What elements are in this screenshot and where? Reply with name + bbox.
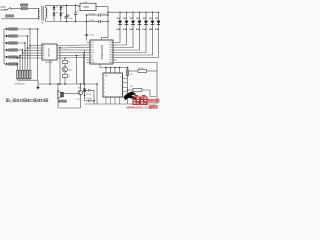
svg-text:V3: V3 (56, 13, 58, 15)
display pin stub (123, 82, 128, 84)
wire speaker bottom loop (58, 95, 80, 108)
svg-text:470µ: 470µ (68, 18, 72, 20)
switch label (6, 15, 8, 17)
wire display pin (105, 68, 107, 74)
svg-text:AT89C2051: AT89C2051 (100, 44, 104, 59)
display pin stub (123, 86, 128, 88)
left indicator diodes LED1-LED6 (3, 29, 5, 64)
speaker feed vertical (76, 56, 78, 85)
wire bridge bottom ground rail (54, 21, 87, 23)
pin stub U1 (40, 45, 43, 47)
svg-text:V1: V1 (56, 7, 58, 9)
regulator IC1 7805 (80, 3, 96, 10)
crystal circuit (84, 84, 86, 101)
svg-text:1B: 1B (43, 53, 45, 55)
LED column D6 (152, 12, 154, 20)
svg-text:C9 30p: C9 30p (86, 98, 92, 100)
svg-text:C2: C2 (77, 11, 79, 13)
svg-text:RST: RST (109, 62, 112, 64)
wire bridge top to regulator (61, 5, 80, 6)
svg-text:R11: R11 (130, 86, 133, 88)
speaker left rail (57, 84, 59, 108)
bottom ground rail (85, 103, 157, 105)
pin stub U2 (87, 52, 91, 54)
LED supply rail top right (108, 11, 159, 13)
wire drop to resistor array (19, 57, 21, 70)
bridge rectifier VD1-VD4 (53, 5, 55, 21)
wire secondary bottom to bridge (46, 18, 54, 21)
wire crystal to bottom rail (93, 90, 95, 104)
svg-text:1B: 1B (43, 58, 45, 60)
wire drop to resistor array (22, 50, 24, 70)
svg-text:4148: 4148 (142, 28, 146, 31)
svg-text:WWW.DZ5C.COM: WWW.DZ5C.COM (127, 106, 152, 110)
diode row VD6 (4, 35, 6, 37)
wire LED column 5 to U2 (117, 35, 147, 53)
pin stub U2 (87, 59, 91, 61)
wires U1 left pins to diode drops (30, 45, 40, 47)
wire LED column 7 to U2 (117, 35, 159, 58)
wire display pin (119, 68, 121, 74)
caption figure 1 (6, 99, 9, 102)
svg-text:4148: 4148 (149, 28, 153, 31)
svg-text:9013: 9013 (78, 87, 82, 89)
wire LED column 3 to U2 (117, 35, 134, 48)
ground symbol (37, 80, 39, 87)
watermark logo swoosh (123, 92, 137, 101)
pin stub U1 (40, 52, 43, 54)
resistor R7 (64, 58, 66, 60)
resistor R11 (127, 89, 129, 91)
svg-text:7: 7 (120, 90, 121, 92)
pin stub U2 (87, 62, 91, 64)
display right rail (127, 68, 129, 105)
capacitor C6 on rail (85, 34, 88, 35)
display pin stub (123, 77, 128, 79)
resistor R8 (64, 72, 66, 74)
wire R10 to right (147, 70, 158, 72)
svg-text:DS1: DS1 (105, 76, 108, 78)
svg-text:1B: 1B (43, 55, 45, 57)
svg-text:1: 1 (10, 99, 12, 103)
wire LED column 2 to U2 (117, 35, 127, 46)
switch K power switch (4, 7, 14, 9)
resistor network R1-R6 (29, 70, 31, 79)
svg-text:C3 220µ: C3 220µ (88, 13, 95, 15)
transformer T1 (38, 9, 39, 19)
resistor R10 (129, 70, 138, 72)
wire secondary top to bridge (46, 5, 54, 7)
display pin stub (123, 95, 128, 97)
svg-text:4148: 4148 (116, 28, 120, 31)
transistor Q3 9013 (78, 90, 83, 95)
wire R11 to rail (142, 90, 156, 97)
rail left of transistor chain (59, 48, 61, 85)
VCC pin stub top (102, 38, 109, 40)
svg-text:V2: V2 (62, 7, 64, 9)
LED column D5 (145, 12, 147, 20)
pin stub U2 (87, 49, 91, 51)
svg-text:50Hz: 50Hz (0, 10, 6, 12)
wire row1 long drop to ground (30, 28, 38, 30)
wire speaker to transistor Q3 (63, 93, 78, 95)
wire LED column 4 to U2 (117, 35, 140, 51)
svg-text:8: 8 (120, 86, 121, 88)
wire display pin (114, 68, 116, 74)
speaker BL (61, 92, 64, 97)
capacitor C2 (75, 5, 77, 13)
LED column D1 (119, 12, 121, 20)
svg-text:1B: 1B (43, 45, 45, 47)
wire drop to resistor array (17, 64, 19, 70)
wire U1 bottom to ground (49, 60, 51, 84)
LED column D2 (126, 12, 128, 20)
bus resistor array common (18, 79, 31, 81)
svg-text:C5 0.1: C5 0.1 (102, 13, 107, 15)
right outer rail (156, 71, 158, 104)
ground right rail (96, 84, 98, 104)
svg-text:220V: 220V (0, 7, 6, 9)
svg-text:9014: 9014 (68, 70, 72, 72)
crystal XT 4MHz (83, 89, 86, 92)
svg-text:4148: 4148 (123, 28, 127, 31)
wire to ground (64, 77, 66, 84)
svg-text:1B: 1B (43, 48, 45, 50)
wire AC bottom to transformer (2, 18, 39, 20)
pin stub U2 (87, 47, 91, 49)
svg-text:a: a (104, 80, 105, 82)
capacitor C1 electrolytic (66, 5, 68, 21)
LED column D4 (139, 12, 141, 20)
LED column D7 (158, 12, 160, 20)
diode row VD5 (4, 28, 6, 30)
svg-text:6: 6 (120, 94, 121, 96)
svg-text:V4: V4 (62, 13, 64, 15)
diode row VD7 (4, 42, 6, 44)
svg-text:4148: 4148 (136, 28, 140, 31)
transistor Q1 (64, 64, 66, 67)
wire display pin (110, 68, 112, 74)
wires U1 to U2 (60, 44, 87, 47)
capacitor C3 filter row (87, 14, 99, 16)
svg-text:R10 1k: R10 1k (138, 68, 144, 70)
svg-text:7805: 7805 (83, 5, 89, 9)
display module LED1 (103, 73, 123, 97)
capacitor C8 branch (85, 100, 89, 102)
svg-text:C1: C1 (60, 16, 62, 18)
fuse FU (21, 7, 27, 9)
wire Q3 collector (79, 84, 81, 90)
svg-text:e: e (104, 95, 105, 97)
svg-text:d: d (104, 92, 105, 94)
pin stub U1 (40, 57, 43, 59)
svg-text:4148: 4148 (155, 28, 159, 31)
pin stub U1 (40, 55, 43, 57)
wire LED column 1 to U2 (117, 35, 121, 43)
wire U2 to right rail (117, 63, 158, 72)
watermark small characters (148, 99, 150, 102)
diode row VD8 (4, 49, 6, 51)
MCU U2 AT89C2051 (90, 40, 113, 64)
svg-text:C8 30p: C8 30p (86, 94, 92, 96)
svg-text:1k: 1k (68, 76, 70, 78)
wire XTAL1 (60, 49, 87, 51)
resistor R9 on rail (126, 70, 128, 76)
svg-text:10k: 10k (130, 74, 133, 76)
wire drop to resistor array (24, 43, 26, 70)
LED column D3 (132, 12, 134, 20)
pin stub U2 (87, 54, 91, 56)
wire XTAL2 (60, 52, 87, 54)
bottom display stubs (105, 97, 107, 104)
pin stub U2 (87, 44, 91, 46)
svg-text:Q3: Q3 (77, 98, 79, 100)
svg-text:C7 104: C7 104 (89, 35, 95, 37)
diode row VD9 (4, 56, 6, 58)
driver U1 ULN2003 (42, 44, 57, 60)
capacitor C4 filter row (87, 21, 99, 23)
pin stub U1 (40, 50, 43, 52)
svg-text:ULN2003: ULN2003 (45, 62, 53, 64)
wire AC top to transformer (14, 8, 39, 10)
wire LED column 6 to U2 (117, 35, 153, 56)
diode row VD10 (4, 63, 6, 65)
svg-text:9: 9 (120, 81, 121, 83)
svg-text:R1-R6(510): R1-R6(510) (15, 84, 25, 86)
svg-text:C4 104: C4 104 (88, 20, 94, 22)
pin stub U2 (87, 57, 91, 59)
svg-text:ULN2003: ULN2003 (49, 47, 51, 57)
svg-text:10: 10 (120, 77, 122, 79)
watermark big characters (133, 96, 139, 105)
pin stub U1 (40, 47, 43, 49)
svg-text:1B: 1B (43, 50, 45, 52)
svg-text:1k: 1k (68, 62, 70, 64)
ground bus middle (38, 83, 97, 85)
wire regulator output (96, 6, 108, 8)
display pin stub (123, 91, 128, 93)
wire drop to resistor array (27, 36, 29, 70)
node VCC rail vertical (107, 7, 109, 38)
svg-text:b: b (104, 84, 105, 86)
wire display feed (99, 64, 101, 68)
wire drop to resistor array (29, 29, 31, 70)
pin stub U2 (87, 42, 91, 44)
ground rail left vertical (86, 15, 88, 41)
svg-text:4148: 4148 (129, 28, 133, 31)
wire crystal top branch (85, 89, 89, 91)
